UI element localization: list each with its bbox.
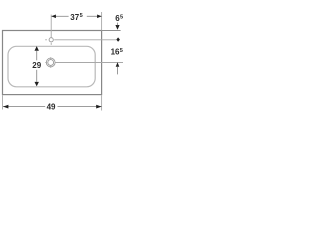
- svg-text:37: 37: [70, 13, 79, 22]
- shared diamond terminator at tap centerline: [116, 37, 120, 41]
- drain tick left: [45, 62, 47, 64]
- 6.5 arrow tail: [117, 23, 119, 26]
- 37.5 dimension line right segment: [87, 15, 102, 17]
- svg-text:5: 5: [80, 13, 83, 19]
- 29 down arrowhead: [35, 82, 39, 87]
- 6.5 down arrowhead: [115, 25, 119, 30]
- washbasin outer outline (top view): [3, 31, 102, 95]
- tap hole tick left: [45, 39, 47, 41]
- 29 dimension up arrowhead: [35, 46, 39, 51]
- svg-text:5: 5: [120, 48, 123, 54]
- 16.5 dimension tail line: [117, 67, 119, 75]
- 29 dimension line lower segment: [36, 70, 38, 82]
- 29 dimension line upper segment: [36, 51, 38, 61]
- 49 right arrowhead: [96, 105, 101, 109]
- drain tick top: [50, 57, 52, 59]
- 37.5 dimension extension line at tap hole: [50, 15, 52, 38]
- 37.5 left arrowhead: [51, 15, 56, 19]
- drain tick bottom: [50, 66, 52, 68]
- svg-text:5: 5: [120, 15, 123, 21]
- background: [0, 0, 125, 125]
- svg-text:49: 49: [47, 103, 56, 112]
- tap hole circle: [49, 38, 53, 42]
- 49 dimension line right segment: [58, 106, 102, 108]
- drain centerline to right / 16.5 extension line: [55, 62, 123, 64]
- inner basin bowl rounded rectangle: [8, 46, 95, 87]
- svg-text:16: 16: [111, 48, 120, 57]
- 37.5 dimension line left segment: [51, 15, 68, 17]
- 49 extension line left: [2, 95, 4, 109]
- drain outer circle: [46, 58, 55, 67]
- 37.5 dimension extension line right: [101, 12, 103, 31]
- 49 left arrowhead: [3, 105, 8, 109]
- svg-text:29: 29: [32, 61, 41, 70]
- 49 extension line right: [101, 95, 103, 110]
- 37.5 right arrowhead: [97, 15, 102, 19]
- 16.5 up arrowhead: [116, 62, 120, 67]
- tap hole tick below: [50, 43, 52, 45]
- top edge extension line to 6.5 dimension: [102, 30, 121, 32]
- 49 dimension line left segment: [3, 106, 45, 108]
- drain inner circle: [48, 60, 54, 66]
- tap hole centerline to right: [54, 39, 116, 41]
